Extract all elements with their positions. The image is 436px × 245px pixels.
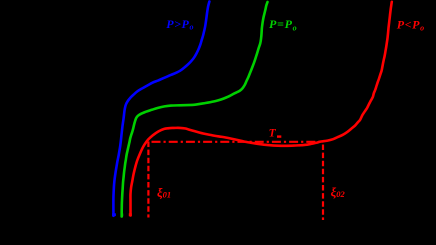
dashed vertical at xi01	[147, 142, 149, 218]
svg-text:T: T	[269, 128, 277, 140]
green curve end cap	[121, 214, 124, 217]
curve P>P0 (blue isotherm)	[113, 2, 209, 216]
blue curve end cap	[112, 213, 116, 216]
red curve end cap	[129, 213, 132, 216]
dashed vertical at xi02	[322, 145, 324, 221]
curve P<P0 (red isotherm)	[130, 2, 391, 216]
curve P=P0 (green critical isotherm)	[122, 2, 268, 217]
dash-dot tie line	[152, 141, 321, 143]
